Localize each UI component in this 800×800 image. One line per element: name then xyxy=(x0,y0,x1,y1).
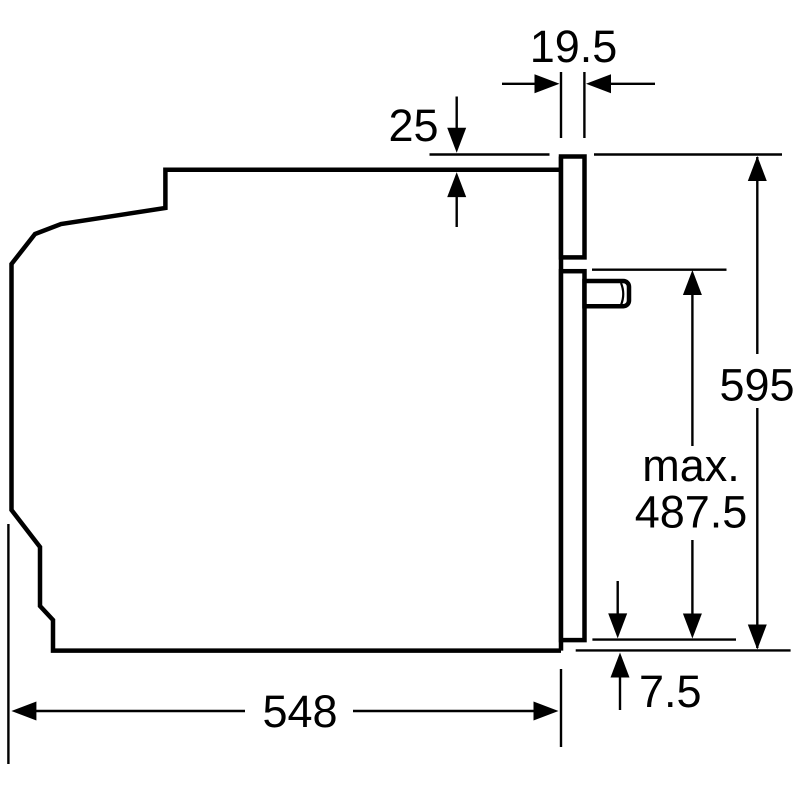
dim 19.5 extension line left xyxy=(560,72,562,138)
dim 19.5 arrow right xyxy=(586,74,611,93)
dim 25 down arrowhead xyxy=(447,128,466,153)
dim 548 line left xyxy=(35,710,245,712)
dim 7.5 up arrow line xyxy=(619,676,621,710)
svg-text:19.5: 19.5 xyxy=(530,21,618,72)
oven body outline xyxy=(12,170,562,651)
dim 25 down arrow line xyxy=(456,97,458,133)
handle xyxy=(585,281,630,306)
front face line xyxy=(559,157,564,651)
door panel xyxy=(561,271,585,640)
dim 595 line lower xyxy=(756,408,758,648)
svg-text:595: 595 xyxy=(719,360,794,411)
dim 25 up arrowhead xyxy=(447,172,466,197)
dim 548 left arrowhead xyxy=(11,702,36,721)
handle highlight arc xyxy=(621,283,623,305)
svg-text:max.: max. xyxy=(642,440,740,491)
dim 19.5 line left xyxy=(502,83,540,85)
svg-text:25: 25 xyxy=(388,100,438,151)
dim 7.5 upper reference line xyxy=(592,638,736,640)
dim 19.5 arrow left xyxy=(535,74,560,93)
dim 548 right arrowhead xyxy=(534,702,559,721)
svg-text:548: 548 xyxy=(262,686,337,737)
dim 595 top reference line right xyxy=(594,153,782,155)
dim 19.5 extension line right xyxy=(583,72,585,138)
svg-text:487.5: 487.5 xyxy=(635,487,748,538)
dim 7.5 down arrowhead xyxy=(608,613,627,638)
dim 548 line right xyxy=(353,710,534,712)
dim 7.5 up arrowhead xyxy=(611,653,630,678)
dim 595 down arrowhead xyxy=(748,625,767,650)
svg-text:7.5: 7.5 xyxy=(639,666,702,717)
dim max 487.5 top reference line xyxy=(592,269,727,271)
dim 548 extension line right xyxy=(560,669,562,747)
dim 7.5 down arrow line xyxy=(617,581,619,615)
dim 19.5 line right xyxy=(609,83,655,85)
dim 595 line upper xyxy=(756,157,758,354)
dim max 487.5 line lower xyxy=(691,540,693,615)
dim 595 up arrowhead xyxy=(748,156,767,181)
dim max 487.5 up arrowhead xyxy=(683,270,702,295)
dim 548 extension line left xyxy=(7,524,9,764)
dim max 487.5 line upper xyxy=(691,293,693,446)
dim max 487.5 down arrowhead xyxy=(683,614,702,639)
fascia panel xyxy=(561,157,585,258)
dim 25 top reference line left xyxy=(430,153,550,155)
dim 25 up arrow line xyxy=(456,195,458,227)
dim 7.5 lower reference line xyxy=(576,649,791,651)
